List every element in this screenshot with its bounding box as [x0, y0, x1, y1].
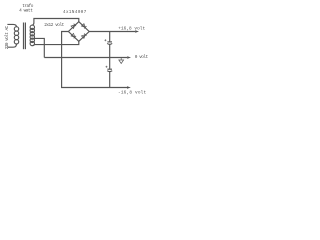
- output arrow +16,8 volt: [135, 30, 139, 33]
- wire secondary top tap to bridge AC1: [32, 19, 79, 26]
- wire junction zero rail to C2: [109, 58, 111, 70]
- transformer T1 primary top lead: [7, 24, 16, 27]
- svg-text:0 volt: 0 volt: [135, 55, 149, 60]
- svg-text:2x12 volt: 2x12 volt: [44, 23, 64, 28]
- C1 plus mark: [104, 39, 106, 41]
- svg-text:4x1N4007: 4x1N4007: [63, 11, 87, 15]
- C2 plus mark: [106, 66, 108, 68]
- diode D3 (left-bottom arm): [71, 33, 76, 38]
- diode D1 (left-top arm): [71, 24, 76, 29]
- svg-text:-16,8 volt: -16,8 volt: [118, 91, 147, 96]
- ground symbol on zero-volt rail: [119, 58, 124, 64]
- svg-text:4 watt: 4 watt: [19, 8, 33, 13]
- diode D4 (bottom-right arm): [82, 34, 87, 39]
- transformer T1 primary winding: [14, 27, 18, 44]
- wire secondary center tap: [34, 38, 44, 57]
- diode D2 (top-right arm): [82, 24, 87, 29]
- output arrow -16,8 volt: [127, 86, 131, 89]
- output arrow 0 volt: [127, 56, 131, 59]
- svg-text:+16,8 volt: +16,8 volt: [118, 27, 145, 32]
- transformer T1 secondary winding: [30, 25, 34, 46]
- wire zero-volt rail: [44, 57, 127, 59]
- transformer T1 primary bottom lead: [7, 44, 16, 47]
- capacitor C2 (polarized): [107, 69, 112, 87]
- wire positive rail: [89, 31, 135, 33]
- bridge rectifier B1 diamond: [68, 22, 89, 42]
- capacitor C1 (polarized): [107, 42, 112, 58]
- wire secondary bottom tap to bridge AC2: [32, 41, 79, 45]
- wire bridge minus to negative rail: [62, 32, 127, 88]
- transformer T1 core: [24, 23, 26, 50]
- svg-text:230 volt AC: 230 volt AC: [5, 25, 10, 49]
- wire junction positive rail to C1: [109, 32, 111, 42]
